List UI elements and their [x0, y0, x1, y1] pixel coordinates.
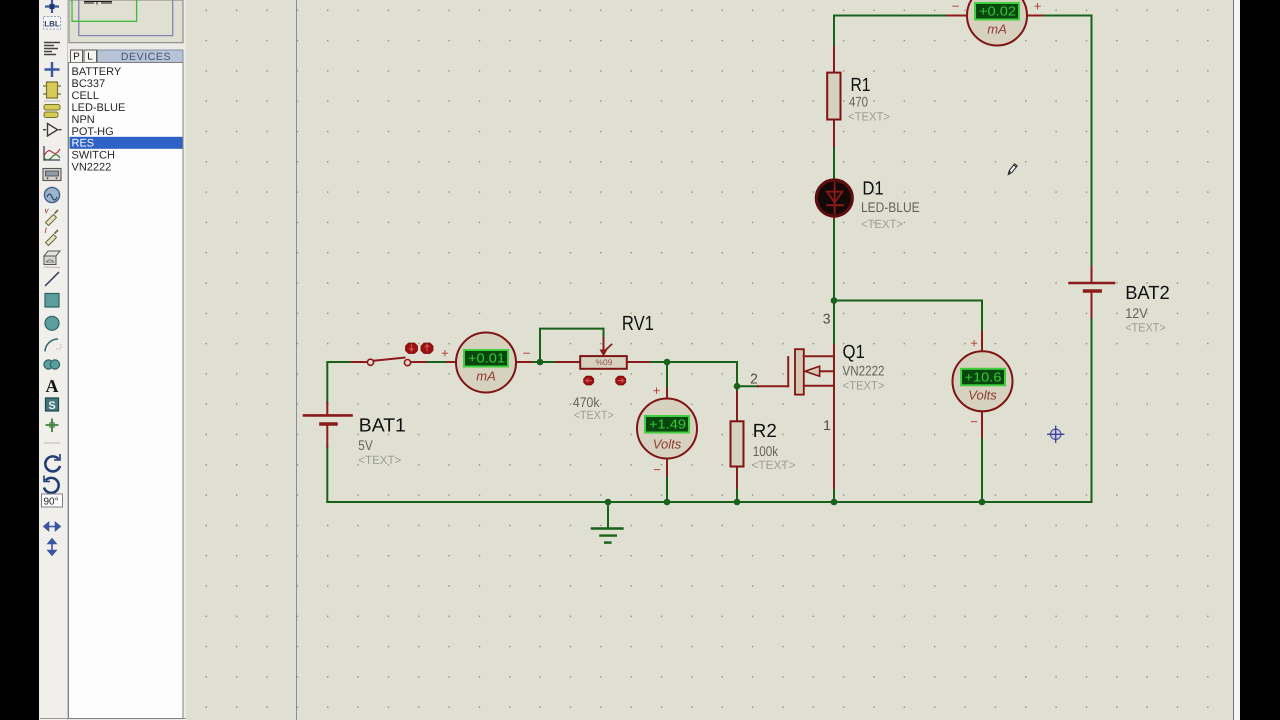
- svg-text:L: L: [87, 52, 93, 63]
- toolbar icon: current probe: [46, 235, 57, 246]
- svg-text:BAT2: BAT2: [1125, 283, 1170, 304]
- svg-text:mA: mA: [987, 22, 1007, 37]
- rail junction at V1: [664, 499, 671, 506]
- toolbar icon: marker: [46, 419, 59, 433]
- svg-text:D1: D1: [862, 179, 883, 200]
- wire node B down to voltmeter V1: [666, 362, 668, 389]
- transistor Q1 (VN2222 MOSFET): [758, 345, 834, 488]
- svg-text:mA: mA: [476, 369, 496, 384]
- svg-text:Volts: Volts: [968, 388, 997, 403]
- wire V1 bottom to ground rail: [666, 476, 668, 502]
- LED D1: [816, 180, 852, 218]
- toolbar icon: 2d closed path: [44, 360, 53, 369]
- svg-text:SWITCH: SWITCH: [72, 150, 115, 162]
- svg-text:5V: 5V: [358, 437, 373, 453]
- wire Q1 source pin to rail: [833, 488, 835, 502]
- node B junction: [664, 359, 671, 366]
- svg-text:+: +: [970, 336, 978, 351]
- wire R2 bottom to rail: [736, 488, 738, 502]
- svg-text:+0.01: +0.01: [468, 351, 505, 366]
- wire node 2 to Q1 gate pin: [737, 385, 758, 387]
- toolbar icon: 2d line: [45, 272, 59, 286]
- svg-text:+: +: [441, 346, 449, 361]
- toolbar icon: voltage probe: [46, 215, 57, 226]
- resistor R1: [827, 47, 840, 146]
- ammeter A2: [947, 0, 1042, 46]
- svg-text:−: −: [970, 414, 978, 429]
- wire A1 to node A: [531, 361, 556, 363]
- svg-text:NPN: NPN: [72, 114, 95, 126]
- wire D1 bottom to node C: [833, 218, 835, 301]
- svg-text:BC337: BC337: [72, 78, 106, 90]
- mouse cursor pencil: [1008, 164, 1017, 175]
- svg-text:+10.6: +10.6: [965, 369, 1002, 384]
- wire switch to ammeter A1: [426, 361, 447, 363]
- toolbar icon: instrument: [44, 251, 60, 256]
- switch SW1: [352, 358, 426, 366]
- svg-text:1: 1: [823, 417, 831, 433]
- svg-text:60%: 60%: [596, 357, 613, 366]
- svg-text:RES: RES: [72, 138, 95, 150]
- svg-text:12V: 12V: [1125, 305, 1148, 321]
- battery BAT2: [1070, 267, 1115, 317]
- svg-text:3: 3: [823, 311, 831, 327]
- wire node A up-over to RV1 wiper: [540, 329, 604, 362]
- wire BAT1 top to switch: [327, 362, 353, 403]
- svg-text:DEVICES: DEVICES: [121, 51, 171, 63]
- svg-text:<TEXT>: <TEXT>: [843, 379, 885, 393]
- sheet border line: [296, 0, 298, 720]
- svg-text:<TEXT>: <TEXT>: [861, 217, 903, 231]
- toolbar icon: generator: [44, 187, 59, 202]
- node 2 junction: [734, 383, 741, 390]
- toolbar icon: rotate cw: [45, 456, 60, 471]
- RV1 adjust buttons: [584, 376, 626, 385]
- svg-text:−: −: [653, 462, 661, 477]
- wire RV1 right pin to node B: [649, 361, 667, 363]
- node C junction: [831, 297, 838, 304]
- wire A2 to BAT2 top: [1042, 16, 1092, 268]
- svg-text:+0.02: +0.02: [979, 4, 1016, 19]
- svg-text:LBL: LBL: [44, 20, 60, 29]
- svg-text:LED-BLUE: LED-BLUE: [861, 199, 920, 215]
- svg-text:BAT1: BAT1: [359, 416, 406, 437]
- svg-text:<TEXT>: <TEXT>: [1125, 320, 1166, 334]
- TOOLBAR-ICONS: [42, 0, 63, 555]
- svg-text:Volts: Volts: [653, 437, 682, 452]
- svg-text:+1.49: +1.49: [649, 417, 686, 432]
- toolbar icon: wire label LBL: [44, 17, 61, 30]
- svg-text:<TEXT>: <TEXT>: [358, 453, 401, 467]
- svg-text:POT-HG: POT-HG: [72, 126, 114, 138]
- svg-text:<TEXT>: <TEXT>: [848, 110, 890, 124]
- svg-text:P: P: [73, 52, 80, 63]
- toolbar icon: subcircuit: [44, 105, 60, 111]
- svg-text:S: S: [48, 400, 55, 412]
- wire R1 top corner from top rail: [833, 16, 835, 48]
- potentiometer RV1: [556, 338, 649, 369]
- svg-text:2: 2: [750, 371, 758, 387]
- svg-text:<TEXT>: <TEXT>: [574, 408, 614, 422]
- toolbar icon: mirror horizontal: [44, 523, 60, 531]
- battery BAT1: [304, 403, 352, 447]
- toolbar icon: terminal: [48, 124, 58, 137]
- svg-text:+: +: [1034, 0, 1042, 14]
- toolbar icon: bus: [45, 62, 60, 77]
- wire ground rail: [327, 501, 982, 503]
- wire top rail from R1 to ammeter A2: [834, 15, 947, 17]
- ammeter A1: [441, 333, 531, 393]
- svg-text:LED-BLUE: LED-BLUE: [72, 102, 126, 114]
- rail junction at V2: [979, 499, 986, 506]
- toolbar icon: angle box: [42, 494, 63, 507]
- switch SW1 toggle buttons: [406, 343, 434, 354]
- svg-text:90°: 90°: [44, 497, 59, 508]
- resistor R2: [731, 392, 744, 488]
- origin marker: [1048, 426, 1064, 442]
- wire V2 bottom to rail: [981, 437, 983, 502]
- toolbar icon: junction dot mode: [45, 0, 59, 13]
- svg-text:CELL: CELL: [72, 90, 100, 102]
- svg-text:+: +: [653, 383, 661, 398]
- voltmeter V1: [637, 383, 697, 477]
- node A junction: [537, 359, 544, 366]
- svg-text:Q1: Q1: [843, 342, 865, 363]
- toolbar icon: rotate ccw: [44, 478, 59, 493]
- svg-text:−: −: [523, 346, 531, 361]
- device list: [69, 63, 184, 719]
- ground: [592, 502, 623, 543]
- toolbar icon: component: [47, 82, 58, 98]
- wire R1 bottom to D1 top: [833, 146, 835, 180]
- toolbar icon: 2d box: [45, 294, 59, 308]
- toolbar icon: text script: [44, 43, 60, 55]
- wire node C to Q1 drain pin: [833, 301, 835, 346]
- wire node B to node 2 (gate/R2): [667, 362, 737, 392]
- svg-text:RV1: RV1: [622, 312, 654, 335]
- object selector header: [71, 50, 184, 63]
- wire BAT2 bottom to rail corner: [982, 317, 1092, 502]
- toolbar icon: graph: [44, 146, 60, 160]
- svg-text:A: A: [46, 376, 59, 396]
- voltmeter V2: [953, 332, 1013, 437]
- toolbar icon: mirror vertical: [48, 539, 56, 555]
- svg-text:<TEXT>: <TEXT>: [752, 458, 796, 472]
- toolbar icon: tape recorder: [43, 169, 61, 181]
- wire node C right to voltmeter V2 branch: [834, 301, 982, 332]
- svg-text:BATTERY: BATTERY: [72, 66, 122, 78]
- toolbar icon: 2d symbol: [46, 398, 59, 411]
- preview pane: [69, 0, 183, 43]
- svg-text:470: 470: [849, 94, 868, 110]
- toolbar icon: 2d circle: [45, 316, 59, 330]
- svg-text:VN2222: VN2222: [843, 363, 885, 379]
- svg-text:−: −: [952, 0, 960, 14]
- rail junction at R2: [734, 499, 741, 506]
- svg-text:VN2222: VN2222: [72, 162, 112, 174]
- rail junction at Q1 source: [831, 499, 838, 506]
- svg-text:R2: R2: [753, 421, 777, 442]
- toolbar icon: 2d arc: [45, 339, 58, 352]
- rail junction at ground: [605, 499, 612, 506]
- wire BAT1 bottom to rail: [326, 447, 328, 502]
- svg-text:100k: 100k: [753, 443, 779, 459]
